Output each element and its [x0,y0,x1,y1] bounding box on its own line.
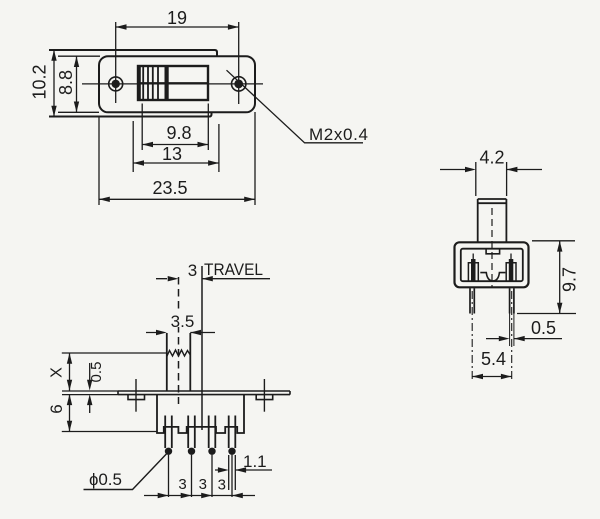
dim 0.5 plate [89,363,91,413]
dim X [69,353,71,391]
travel line [201,266,203,430]
centerline horizontal [82,83,263,85]
6 bottom ext line [62,431,157,433]
svg-text:0.5: 0.5 [531,318,556,338]
FRONT VIEW GROUP [47,261,290,498]
dim 8.8 line [76,56,78,112]
ear tab right [256,395,273,400]
contact post right [506,263,516,282]
dim 23.5 ext lines [99,112,255,205]
svg-text:19: 19 [167,8,187,28]
pin1 front [165,416,172,449]
SIDE VIEW GROUP [440,148,580,383]
M2x0.4 leader [227,70,364,143]
svg-text:5.4: 5.4 [481,349,506,369]
svg-text:1.1: 1.1 [243,452,267,471]
pin3 front [209,416,216,449]
knob serrations [138,66,141,100]
dim 19 line [116,26,239,28]
svg-text:4.2: 4.2 [479,148,504,168]
8.8 extension top [58,55,100,57]
svg-text:0.5: 0.5 [88,362,105,383]
X ext line [62,352,167,354]
dim 23.5 line [99,198,255,200]
knob midline [138,82,208,84]
svg-text:X: X [49,367,66,378]
svg-text:6: 6 [47,404,66,413]
dim 9.8 line [142,144,208,146]
plate bottom edge [49,112,212,116]
stem dashed centerline [178,277,180,404]
dim 9.7 line [559,241,561,314]
stem side [478,199,507,242]
pin left side [470,288,474,313]
detent notch [486,249,500,254]
svg-text:ɸ0.5: ɸ0.5 [89,470,122,489]
body side outer [455,242,529,287]
dim 13 ext lines [133,121,219,172]
hole left centerline [115,22,117,103]
stem front [167,333,191,391]
hole right [232,77,246,91]
hole right centerline [238,22,240,104]
pin2 front [188,416,195,449]
dim 3-3-3 line [144,495,255,497]
dim 13 line [133,162,219,164]
svg-text:M2x0.4: M2x0.4 [309,125,368,144]
TOP VIEW GROUP [30,8,369,205]
dome contact [480,273,505,281]
svg-text:3: 3 [178,476,186,493]
svg-text:13: 13 [162,144,182,164]
dim 4.2 arrows [440,169,542,171]
svg-text:3.5: 3.5 [171,312,195,331]
svg-text:8.8: 8.8 [56,70,76,95]
pin4 front [229,416,236,449]
dim 3 travel arrows [156,278,270,280]
housing body [99,56,255,112]
body side inner [461,249,523,282]
dim 10.2 line [53,50,55,117]
pin right side [510,288,514,313]
plate edge-on [118,391,290,395]
dim 0.5 side [486,338,562,340]
dim 9.7 ext [517,241,576,314]
svg-text:10.2: 10.2 [30,64,50,99]
dim 6 [69,394,71,431]
body front outline [157,394,244,433]
text 3.5 mask [170,310,195,327]
svg-text:3: 3 [188,261,197,280]
hole left [109,77,123,91]
svg-text:TRAVEL: TRAVEL [204,261,263,279]
dim 9.8 ext lines [142,104,208,151]
dim 4.2 ext [476,162,507,196]
ear tab left [128,395,145,400]
dim 1.1 [215,469,272,471]
svg-text:9.7: 9.7 [560,267,580,292]
dim 3.5 arrows [146,332,215,334]
svg-text:3: 3 [199,476,207,493]
dim 5.4 line [472,376,512,378]
plate top edge [49,50,217,56]
stem break zigzag [167,350,191,357]
stem dashed centerline [491,208,493,288]
knob [138,66,208,100]
plate ext lines left [62,391,118,395]
contact post left [468,263,478,282]
svg-text:3: 3 [218,477,226,494]
svg-text:9.8: 9.8 [166,123,191,143]
svg-text:23.5: 23.5 [152,178,187,198]
8.8 extension bottom [58,111,99,113]
